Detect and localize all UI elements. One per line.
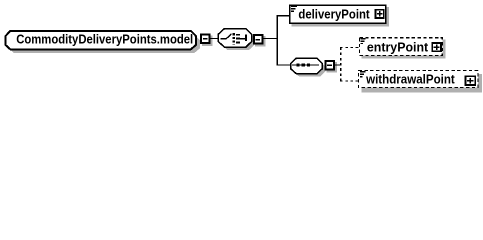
collapse button 1 (minus) xyxy=(200,34,211,45)
entryPoint annotation icon xyxy=(360,39,365,44)
collapse button 2 (minus) xyxy=(253,34,264,45)
deliveryPoint annotation icon xyxy=(291,6,297,11)
sequence icon (dots on line) xyxy=(292,63,319,66)
choice compositor shadow xyxy=(221,32,254,50)
withdrawalPoint expand button (plus) xyxy=(465,75,477,86)
element withdrawalPoint box (optional, dashed) xyxy=(359,70,478,87)
element entryPoint box (optional, dashed) xyxy=(360,38,443,56)
collapse button 3 (minus) xyxy=(324,60,335,71)
wire choice to branch trunk xyxy=(263,38,278,40)
svg-text:CommodityDeliveryPoints.model: CommodityDeliveryPoints.model xyxy=(16,33,193,47)
dashed wire to withdrawalPoint xyxy=(340,80,358,82)
svg-text:entryPoint: entryPoint xyxy=(367,40,429,54)
entryPoint expand button (plus) xyxy=(431,42,442,52)
dashed wire to entryPoint xyxy=(340,46,359,48)
collapse button 2 shadow xyxy=(255,36,266,47)
wire sequence stub xyxy=(334,64,340,66)
withdrawalPoint annotation icon xyxy=(360,72,365,77)
element deliveryPoint box xyxy=(290,5,386,23)
wire trunk to deliveryPoint xyxy=(277,15,290,17)
collapse button 1 shadow xyxy=(202,36,213,47)
svg-text:deliveryPoint: deliveryPoint xyxy=(298,8,370,22)
element entryPoint shadow xyxy=(361,40,445,59)
sequence compositor shadow xyxy=(294,61,326,76)
element CommodityDeliveryPoints.model (model group box) xyxy=(5,31,196,50)
wire model to choice xyxy=(210,38,218,40)
branch trunk vertical xyxy=(276,16,278,65)
sequence compositor octagon xyxy=(291,58,323,73)
choice icon xyxy=(221,33,246,44)
wire trunk to sequence xyxy=(277,64,291,66)
svg-text:withdrawalPoint: withdrawalPoint xyxy=(365,72,455,86)
model box shadow xyxy=(9,34,200,53)
collapse button 3 shadow xyxy=(326,62,337,73)
choice compositor octagon xyxy=(218,29,251,47)
dashed branch trunk xyxy=(340,47,342,81)
element withdrawalPoint shadow xyxy=(361,74,482,92)
deliveryPoint expand button (plus) xyxy=(375,9,385,19)
element deliveryPoint shadow xyxy=(292,7,390,26)
